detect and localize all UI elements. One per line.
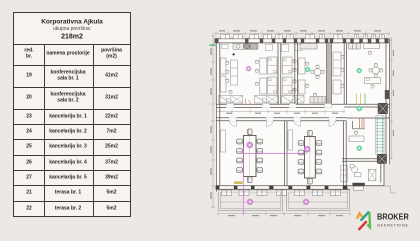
svg-text:BROKER: BROKER	[377, 213, 409, 222]
right outer wall top section	[386, 39, 390, 164]
walls	[215, 34, 391, 195]
top dim line	[214, 33, 390, 35]
left outer wall	[216, 39, 220, 192]
room C top cabinet	[300, 43, 317, 49]
room A bottom hatched desk	[219, 96, 243, 104]
right dim line	[391, 37, 393, 160]
room marker pink terrace 2	[303, 199, 309, 205]
door gaps top band wall (white)	[226, 104, 332, 108]
room C bottom door chair	[313, 93, 317, 97]
row 21	[26, 190, 32, 196]
elevator shaft	[378, 103, 388, 114]
room A dark dot	[233, 53, 235, 55]
conference table 2	[298, 130, 322, 184]
solid columns bottom wall	[216, 185, 348, 189]
room B-C bottom hatched desk	[282, 96, 305, 104]
room A right wall desks	[255, 57, 277, 94]
room D lower desk	[365, 78, 381, 89]
top window mullion boxes	[221, 34, 384, 38]
room D top desk	[364, 43, 380, 54]
room A kitchen cabinets	[233, 43, 258, 49]
conference table 1	[237, 129, 263, 183]
left dim line	[212, 33, 214, 209]
wall narrow|D	[344, 43, 346, 104]
conference right wall	[344, 121, 347, 186]
room C round table	[310, 65, 324, 79]
green dash top-left	[209, 44, 217, 46]
small room wall right section	[353, 121, 366, 129]
broker logo	[352, 206, 420, 236]
dim text specks	[210, 30, 394, 216]
data table	[13, 12, 131, 217]
terrace 1 outline	[219, 190, 283, 211]
room B desks	[283, 57, 297, 94]
row 26	[26, 160, 32, 166]
row 19	[26, 73, 32, 79]
row 20	[26, 95, 32, 101]
column headers	[24, 49, 33, 60]
floor white fill	[215, 38, 390, 192]
lower-right red door lines	[360, 119, 365, 129]
room D top cabinet	[349, 43, 361, 49]
conference room 2 side cabinet	[288, 130, 293, 150]
logo mark red diagonal	[359, 221, 367, 230]
row 25	[26, 144, 32, 150]
room marker pink 26	[246, 66, 251, 71]
shower x-box	[368, 169, 376, 181]
logo mark orange chevron	[357, 213, 363, 219]
room C bottom cabinet	[310, 97, 326, 104]
under-window radiators	[222, 44, 303, 52]
wall C|D thick	[327, 43, 332, 104]
table title	[41, 19, 103, 26]
right section wall at conference top	[346, 117, 389, 119]
right section mid wall	[342, 159, 377, 162]
window box below right wall	[354, 186, 364, 190]
magenta dimension line vertical	[242, 148, 244, 215]
corridor bottom wall / conference top wall	[216, 118, 346, 121]
corridor dim line	[217, 111, 345, 113]
room marker green 27	[357, 68, 362, 73]
yellow door mark	[234, 181, 243, 184]
bottom window mullion boxes	[222, 190, 341, 196]
conference room 1 side cabinet	[221, 130, 226, 152]
room marker pink conf 2	[304, 146, 310, 152]
dark bar below toilets	[352, 183, 364, 186]
room marker green lower	[357, 146, 362, 151]
room A-B bottom hatched desk	[255, 96, 279, 104]
conference divider wall	[284, 121, 287, 186]
room marker pink terrace 1	[247, 199, 253, 205]
wall B|C	[295, 43, 298, 104]
room marker green 25	[357, 106, 362, 111]
door gaps conference wall (white)	[229, 118, 336, 122]
dimension lines	[213, 33, 392, 214]
top band bottom wall	[216, 104, 390, 107]
table grid lines	[14, 44, 130, 45]
wall A|B	[278, 43, 281, 104]
room marker green 23	[305, 67, 310, 72]
logo mark green right side	[367, 212, 370, 227]
toilet room fixtures	[341, 165, 361, 182]
row 22	[26, 206, 32, 212]
lower dark x-box	[377, 154, 386, 163]
right step outline	[384, 186, 396, 193]
top wall double line	[216, 39, 390, 43]
bottom dim line	[218, 213, 350, 215]
dim ticks top	[211, 32, 393, 216]
row 23	[26, 114, 32, 120]
terrace 2 outline	[287, 190, 350, 211]
stairs teal guide lines	[377, 116, 382, 154]
room marker pink conf 1	[247, 142, 253, 148]
terrace dim line 2	[288, 201, 349, 203]
lower-right room desk	[349, 131, 364, 141]
row 27	[26, 175, 32, 181]
solid columns top wall	[215, 38, 389, 43]
right outer wall lower section	[381, 164, 384, 186]
red door marks room A	[246, 99, 252, 105]
room D round table	[369, 63, 383, 77]
stairs right	[376, 116, 384, 154]
bottom outer wall	[216, 186, 384, 190]
door leaves corridor	[227, 98, 337, 126]
logo mark teal diagonal	[361, 212, 370, 221]
room A left wall desks	[221, 58, 238, 92]
svg-text:NEKRETNINE: NEKRETNINE	[377, 223, 409, 228]
terrace dim line 1	[220, 201, 283, 203]
room D dark block right	[385, 90, 389, 99]
room C left desks	[299, 58, 309, 94]
row 24	[26, 129, 32, 135]
magenta dimension line horizontal	[243, 153, 306, 155]
narrow room desks	[333, 52, 345, 94]
room D door dashes colored	[357, 94, 361, 105]
